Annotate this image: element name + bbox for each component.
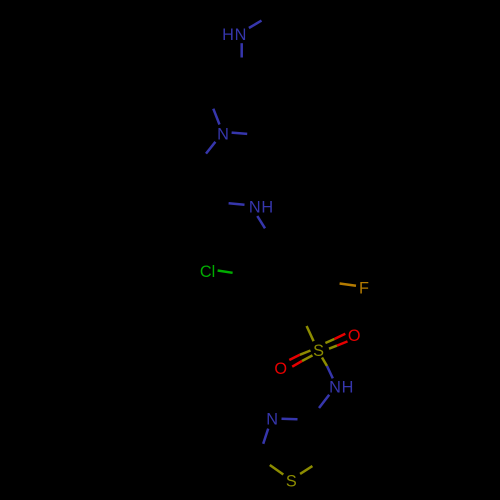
svg-text:F: F	[359, 279, 369, 297]
bond S-N sulfonamide, N half	[327, 366, 333, 378]
double bond S=O left, upper line S half	[300, 351, 311, 355]
svg-text:NH: NH	[249, 198, 274, 216]
bond N1(pyrrolidine)-C2	[232, 133, 248, 134]
bond N1(pyrrolidine)-C5	[213, 109, 219, 125]
svg-text:O: O	[274, 360, 287, 378]
double bond S=O left, lower line O half	[292, 361, 302, 367]
svg-text:Cl: Cl	[200, 263, 215, 281]
bond S-N sulfonamide, S half	[322, 358, 327, 367]
double bond S=O right, upper line S half	[325, 339, 334, 343]
bond NH(sulfonamide)-C4 thiazole	[319, 395, 329, 408]
svg-text:S: S	[313, 342, 324, 360]
bond NH(anilino)-CH2 chain	[229, 203, 245, 205]
svg-text:N: N	[266, 411, 278, 429]
svg-text:HN: HN	[222, 26, 247, 44]
bond N(methylamino)-C4(pyrrolidine)	[240, 43, 243, 57]
svg-text:O: O	[348, 327, 361, 345]
double bond S=O right, upper line O half	[334, 334, 345, 339]
svg-text:NH: NH	[329, 379, 354, 397]
bond N3(thiazole)-C4	[282, 418, 298, 421]
bond S1(thiazole)-C5	[300, 466, 312, 474]
svg-text:S: S	[286, 473, 297, 491]
double bond S=O right, lower line O half	[337, 341, 348, 345]
svg-text:N: N	[217, 125, 229, 143]
bond S(sulfonyl)-C benzene	[307, 326, 314, 341]
double bond S=O right, lower line S half	[329, 346, 337, 349]
double bond S=O left, lower line S half	[302, 355, 313, 361]
bond NH(anilino)-C1 benzene	[257, 216, 265, 228]
bond N1(pyrrolidine)-CH2 chain	[206, 142, 215, 154]
bond F-C benzene	[340, 284, 356, 286]
bond N3(thiazole)-C2	[263, 429, 268, 444]
bond S1(thiazole)-C2	[270, 465, 284, 475]
double bond S=O left, upper line O half	[289, 355, 300, 360]
bond Cl-C benzene	[218, 271, 233, 273]
bond N(methylamino)-CH3	[249, 21, 262, 28]
